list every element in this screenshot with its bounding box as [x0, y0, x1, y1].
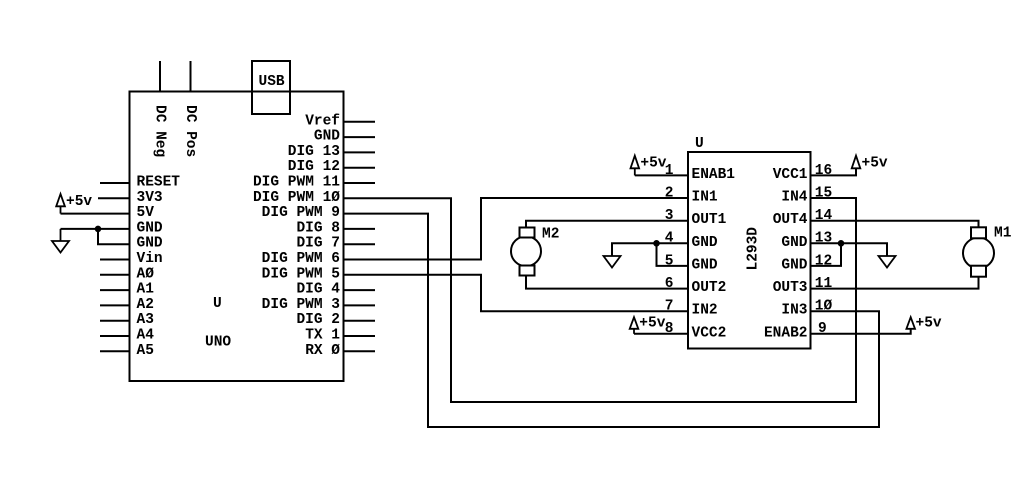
node junction GND: [96, 227, 101, 232]
svg-text:DIG 8: DIG 8: [296, 220, 340, 236]
power +5v symbol at Arduino 5V: [56, 194, 65, 214]
svg-text:IN2: IN2: [692, 303, 718, 319]
wire DIG PWM 5 to L293D IN2: [344, 275, 689, 311]
svg-text:+5v: +5v: [639, 316, 665, 332]
svg-text:7: 7: [665, 299, 674, 315]
svg-text:IN3: IN3: [781, 303, 807, 319]
svg-text:+5v: +5v: [640, 156, 666, 172]
svg-text:5: 5: [665, 253, 674, 269]
USB connector box: [252, 61, 290, 114]
svg-text:12: 12: [815, 253, 832, 269]
pin DC Pos: [190, 61, 192, 92]
svg-text:8: 8: [665, 321, 674, 337]
right pin stub RX 0: [344, 350, 376, 352]
wire M2 bottom to OUT2 pin 6: [526, 266, 688, 289]
svg-text:ENAB2: ENAB2: [764, 325, 808, 341]
svg-text:GND: GND: [692, 257, 718, 273]
svg-text:L293D: L293D: [746, 227, 762, 271]
svg-text:A2: A2: [137, 297, 154, 313]
svg-text:ENAB1: ENAB1: [692, 167, 736, 183]
svg-text:DIG PWM 3: DIG PWM 3: [262, 297, 340, 313]
svg-text:DC Neg: DC Neg: [152, 105, 168, 157]
wire GND pin 13 to ground: [811, 243, 888, 256]
svg-text:5V: 5V: [137, 205, 155, 221]
right pin stub DIG 2: [344, 320, 376, 322]
svg-text:4: 4: [665, 231, 674, 247]
svg-text:GND: GND: [137, 236, 163, 252]
svg-text:IN4: IN4: [781, 190, 807, 206]
svg-text:15: 15: [815, 185, 832, 201]
svg-text:2: 2: [665, 185, 674, 201]
svg-text:DIG 12: DIG 12: [288, 159, 340, 175]
svg-text:Vref: Vref: [305, 113, 340, 129]
left pin stub 3V3: [98, 197, 130, 199]
svg-text:GND: GND: [781, 257, 807, 273]
IC U L293D body: [688, 152, 811, 349]
svg-text:Vin: Vin: [137, 251, 163, 267]
wire ground to GND pin: [61, 228, 130, 230]
svg-text:USB: USB: [259, 74, 285, 90]
svg-text:M2: M2: [542, 227, 559, 243]
svg-text:A5: A5: [137, 343, 154, 359]
wire DIG PWM 10 to L293D IN4: [344, 198, 857, 402]
ground symbol left of L293D: [604, 256, 621, 268]
svg-text:VCC2: VCC2: [692, 325, 727, 341]
svg-text:14: 14: [815, 208, 833, 224]
right pin stub TX 1: [344, 335, 376, 337]
svg-text:A4: A4: [137, 328, 155, 344]
wire VCC1 pin 16 to +5v: [811, 168, 857, 175]
svg-text:DC Pos: DC Pos: [182, 105, 198, 157]
svg-text:DIG PWM 11: DIG PWM 11: [253, 175, 340, 191]
right pin stub DIG 8: [344, 228, 376, 230]
pin DC Neg: [159, 61, 161, 92]
right pin stub DIG 13: [344, 151, 376, 153]
svg-text:DIG 7: DIG 7: [296, 236, 340, 252]
left pin stub RESET: [100, 182, 130, 184]
svg-text:OUT1: OUT1: [692, 212, 727, 228]
motor M2 bottom terminal: [520, 266, 535, 276]
svg-text:GND: GND: [781, 235, 807, 251]
svg-text:DIG 2: DIG 2: [296, 312, 340, 328]
right pin stub DIG 4: [344, 289, 376, 291]
svg-text:GND: GND: [692, 235, 718, 251]
svg-text:13: 13: [815, 231, 832, 247]
wire DIG PWM 9 to L293D IN3: [344, 214, 880, 427]
IC U1 Arduino UNO body: [130, 92, 344, 382]
right pin stub DIG PWM 11: [344, 182, 376, 184]
power +5v symbol at ENAB2: [906, 317, 915, 329]
wire OUT3 pin 11 to M1 bottom: [811, 277, 979, 289]
svg-text:UNO: UNO: [205, 335, 231, 351]
right pin stub Vref: [344, 121, 376, 123]
svg-text:+5v: +5v: [66, 194, 92, 210]
svg-text:OUT2: OUT2: [692, 280, 727, 296]
svg-text:OUT4: OUT4: [773, 212, 808, 228]
svg-text:VCC1: VCC1: [773, 167, 808, 183]
svg-text:RX Ø: RX Ø: [305, 343, 340, 359]
svg-text:DIG PWM 1Ø: DIG PWM 1Ø: [253, 190, 340, 206]
wire +5v to 5V pin: [61, 213, 130, 215]
power +5v symbol at VCC2: [630, 317, 639, 334]
wire junction down to GND2: [98, 229, 130, 244]
left pin stub A2: [100, 304, 130, 306]
svg-text:11: 11: [815, 276, 833, 292]
svg-text:M1: M1: [994, 225, 1012, 241]
svg-text:GND: GND: [314, 129, 340, 145]
wire GND pin 12 to junction: [811, 243, 842, 266]
left pin stub Vin: [100, 259, 130, 261]
svg-text:OUT3: OUT3: [773, 280, 808, 296]
wire OUT4 pin 14 to M1 top: [811, 221, 979, 228]
svg-text:GND: GND: [137, 220, 163, 236]
left pin stub A0: [100, 274, 130, 276]
svg-text:U: U: [213, 296, 222, 312]
svg-text:1Ø: 1Ø: [815, 299, 833, 315]
wire M2 top to OUT1 pin 3: [526, 221, 688, 237]
svg-text:DIG 13: DIG 13: [288, 144, 340, 160]
wire GND pin 5 to junction: [657, 243, 689, 266]
svg-text:3: 3: [665, 208, 674, 224]
svg-text:IN1: IN1: [692, 190, 718, 206]
node junction L293D left GND: [654, 241, 659, 246]
motor M2 top terminal: [520, 228, 535, 238]
svg-text:RESET: RESET: [137, 175, 181, 191]
svg-text:DIG 4: DIG 4: [296, 282, 340, 298]
power +5v symbol at VCC1: [852, 156, 861, 169]
wire DIG PWM 6 to L293D IN1: [344, 198, 689, 260]
ground symbol right of L293D: [879, 256, 896, 268]
node junction L293D right GND: [839, 241, 844, 246]
right pin stub GND: [344, 136, 376, 138]
left pin stub A1: [100, 289, 130, 291]
wire +5v to VCC2 pin 8: [634, 333, 688, 335]
left pin stub A4: [100, 335, 130, 337]
right pin stub DIG 7: [344, 243, 376, 245]
svg-text:TX 1: TX 1: [305, 328, 340, 344]
svg-text:DIG PWM 5: DIG PWM 5: [262, 266, 340, 282]
left pin stub A5: [100, 350, 130, 352]
svg-text:AØ: AØ: [137, 266, 155, 282]
motor M1 bottom terminal: [971, 266, 986, 277]
right pin stub DIG PWM 3: [344, 304, 376, 306]
svg-text:+5v: +5v: [862, 156, 888, 172]
right pin stub DIG 12: [344, 167, 376, 169]
svg-text:9: 9: [818, 321, 827, 337]
wire +5v to ENAB1 pin 1: [635, 174, 688, 176]
motor M2 body: [511, 236, 541, 266]
svg-text:6: 6: [665, 276, 674, 292]
left pin stub A3: [100, 320, 130, 322]
svg-text:U: U: [695, 136, 704, 152]
power +5v symbol at ENAB1: [631, 156, 640, 176]
svg-text:3V3: 3V3: [137, 190, 163, 206]
wire ENAB2 pin 9 to +5v: [811, 329, 911, 334]
svg-text:A3: A3: [137, 312, 154, 328]
motor M1 top terminal: [971, 227, 986, 238]
svg-text:A1: A1: [137, 282, 155, 298]
svg-text:+5v: +5v: [916, 316, 942, 332]
svg-text:DIG PWM 6: DIG PWM 6: [262, 251, 340, 267]
wire GND pin 4 to ground: [612, 243, 688, 256]
ground symbol at Arduino GND: [52, 229, 69, 253]
svg-text:16: 16: [815, 163, 832, 179]
svg-text:DIG PWM 9: DIG PWM 9: [262, 205, 340, 221]
motor M1 body: [963, 238, 994, 269]
